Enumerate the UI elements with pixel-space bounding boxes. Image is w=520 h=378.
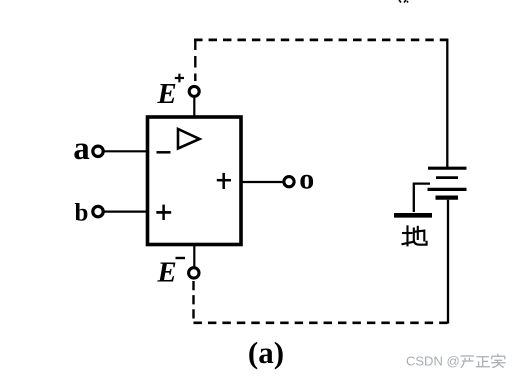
inverting input marker - xyxy=(157,151,171,154)
node b label xyxy=(75,200,89,227)
dashed wire E+ vertical xyxy=(194,39,196,82)
battery plate 4 (short -) xyxy=(436,196,459,200)
wire b to op-amp xyxy=(105,211,148,213)
wire output xyxy=(241,181,283,183)
label E- xyxy=(156,256,185,288)
watermark xyxy=(406,353,460,368)
op-amp U1 body xyxy=(148,117,242,245)
svg-text:E: E xyxy=(156,78,176,110)
battery plate 1 (long +) xyxy=(428,167,467,170)
terminal E- xyxy=(189,268,199,278)
wire battery bottom xyxy=(447,200,449,324)
svg-text:CSDN @: CSDN @ xyxy=(406,353,460,368)
wire battery center tap xyxy=(414,184,430,212)
terminal b xyxy=(93,206,103,216)
svg-text:b: b xyxy=(75,200,89,227)
svg-text:o: o xyxy=(299,163,314,196)
terminal a xyxy=(93,146,103,156)
terminal E+ xyxy=(189,86,199,96)
battery plate 3 (long +) xyxy=(428,188,467,191)
dashed wire bottom horizontal xyxy=(194,321,448,324)
ground bar xyxy=(394,213,432,218)
label E+ xyxy=(156,74,184,110)
svg-text:(a): (a) xyxy=(248,335,284,370)
terminal o xyxy=(284,177,294,187)
battery plate 2 (short -) xyxy=(436,176,458,179)
node o label xyxy=(299,163,314,196)
svg-text:E: E xyxy=(156,256,176,288)
dashed wire top horizontal xyxy=(194,39,448,42)
stray mark top xyxy=(399,0,408,3)
wire E- pin xyxy=(193,246,195,268)
op-amp triangle symbol xyxy=(178,129,200,149)
caption (a) xyxy=(248,335,284,370)
svg-text:a: a xyxy=(73,131,90,167)
output polarity marker + xyxy=(217,173,231,189)
wire a to op-amp xyxy=(105,150,148,152)
wire E+ pin xyxy=(193,97,195,117)
dashed wire E- vertical xyxy=(192,281,194,323)
ground label 地 xyxy=(402,225,427,246)
non-inverting input marker + xyxy=(156,205,171,220)
wire right vertical to battery xyxy=(446,39,448,167)
node a label xyxy=(73,131,90,167)
